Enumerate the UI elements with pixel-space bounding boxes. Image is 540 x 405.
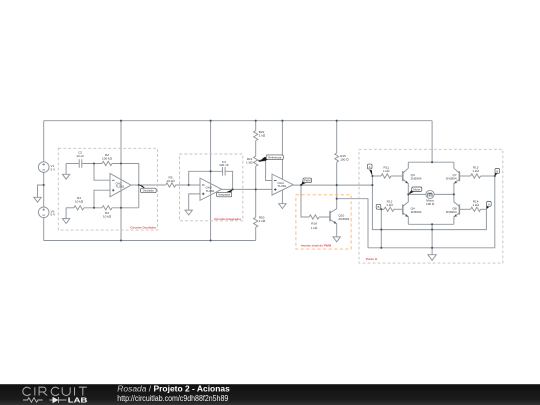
wire R15 to PWM node [336,162,338,198]
junction dots H-bridge [371,175,373,177]
junction dots PWM [300,184,302,186]
motor M1 [426,190,434,198]
resistor R11 [381,174,391,178]
wire bottom rail [44,240,256,242]
svg-text:Integrador: Integrador [218,193,230,197]
wire OA4 Vminus to ground [281,190,283,204]
wire H-bridge feed [431,121,433,163]
svg-text:2N3904: 2N3904 [446,177,457,181]
transistor Q4 [402,204,404,214]
svg-text:1 kΩ: 1 kΩ [311,226,318,230]
svg-text:B: B [378,205,380,209]
wire inverter output [337,199,368,248]
wire R4 left [66,207,74,209]
svg-text:100 Ω: 100 Ω [426,202,435,206]
voltage source V1 [38,162,49,173]
svg-text:1 kΩ: 1 kΩ [472,169,479,173]
resistor R5 [166,183,176,187]
wire motor right [434,193,454,195]
wire OA4 output PWM [293,184,372,186]
flag node B right [495,169,500,177]
svg-text:5 V: 5 V [51,167,57,171]
capacitor C2 [79,159,82,167]
transistor Q7 [458,171,460,181]
resistor R15 vertical [335,153,339,162]
arrow Q3 emitter [405,181,408,184]
flag Referencia [259,155,284,162]
wire bridge top [408,161,454,163]
wire OA3 power vertical [210,121,212,241]
svg-text:TL081: TL081 [278,184,287,188]
op-amp OA4 triangle [272,174,293,195]
arrow Q7 emitter [454,181,457,184]
wire node B net [368,176,495,248]
svg-text:1 kΩ: 1 kΩ [259,134,266,138]
svg-text:100 nF: 100 nF [219,163,229,167]
wire OA2 plus input [94,190,110,208]
svg-text:10 kΩ: 10 kΩ [75,199,84,203]
svg-text:Rosada / Projeto 2 - Acionas: Rosada / Projeto 2 - Acionas [117,385,230,394]
resistor R12 [384,207,394,211]
wire OA2 output to R5 [131,184,166,186]
wire V6 to bottom rail [43,218,45,241]
svg-text:2N3904: 2N3904 [411,210,422,214]
op-amp OA2 triangle [110,173,131,196]
resistor R18 [309,215,319,219]
annotation box Ponte H [359,149,503,263]
svg-text:PWM: PWM [304,179,311,183]
wire C3 to output [225,171,233,189]
ground bridge [428,255,436,261]
wire OA4 Vplus [281,121,283,180]
ground Q10 [333,237,340,242]
flag node A right [486,202,491,210]
ground under C2 [62,164,69,180]
logo wire-resistor-diode glyph [23,397,67,403]
svg-text:5 V: 5 V [51,213,57,217]
transistor Q8 [458,204,460,214]
wire OA3 output to OA4 plus [222,188,272,190]
svg-text:TL081: TL081 [206,189,215,193]
wire motor left [408,193,426,195]
voltage source V6 [38,207,49,218]
wire Q4 base [394,208,403,210]
op-amp OA2 plus minus [112,180,115,191]
svg-text:10 kΩ: 10 kΩ [166,179,175,183]
junction dots oscillator [93,162,95,164]
wire node B branch to R12 [380,209,382,248]
svg-text:http://circuitlab.com/c9dh88f2: http://circuitlab.com/c9dh88f2n5h89 [117,394,228,403]
arrow Q4 emitter [405,214,408,217]
svg-text:1 kΩ: 1 kΩ [386,203,393,207]
svg-text:Ponte H: Ponte H [366,257,377,261]
wire wiper to OA4 minus [266,161,272,181]
wire C2 to R2 [82,163,102,165]
svg-text:A: A [488,202,490,206]
op-amp OA4 plus minus [274,181,277,191]
wire R2 to feedback [112,163,139,165]
resistor R22 vertical [254,131,258,141]
resistor R4 [74,206,84,210]
junction dots on rails [120,120,122,122]
wire R12 left [381,208,384,210]
svg-text:2N3904: 2N3904 [411,177,422,181]
ground OA4 [279,204,286,209]
svg-text:10 kΩ: 10 kΩ [103,215,112,219]
svg-text:Motor: Motor [413,187,420,191]
wire C2 row [66,163,79,165]
svg-text:2N3904: 2N3904 [446,210,457,214]
wire R15 pullup top [336,121,338,153]
junction dot left ground [43,184,45,186]
resistor R3 [102,206,112,210]
resistor R13 [471,174,481,178]
wire Q7 base [459,175,470,177]
svg-text:B: B [496,169,498,173]
op-amp OA3 plus minus [202,185,205,195]
transistor Q10 [329,211,331,222]
resistor R2 [102,161,112,165]
arrow Q8 emitter [454,214,457,217]
svg-text:1 kΩ: 1 kΩ [383,169,390,173]
flag node B left [376,204,381,209]
wire R13 right [481,175,495,177]
wire R18 branch down [301,185,309,217]
svg-text:TL081: TL081 [116,185,125,189]
ground under R4 [62,208,69,224]
wire top power rail [44,120,432,122]
svg-text:Referencia: Referencia [268,155,282,159]
junction dots integrator [188,184,190,186]
wire divider top [255,121,257,131]
wire R3 to feedback [112,207,139,209]
wire OA2 minus input [94,164,110,181]
svg-text:Circuito Oscilador: Circuito Oscilador [130,226,157,230]
annotation box Inverte sinal do PWM [296,195,351,249]
wire node A net [372,176,486,230]
svg-text:1 kΩ: 1 kΩ [472,203,479,207]
wire R18 to Q10 base [319,216,330,218]
svg-text:1 kΩ: 1 kΩ [259,219,266,223]
svg-text:A: A [369,165,371,169]
flag PWM [301,178,312,185]
wire OA3 plus to ground [189,194,200,210]
wire bridge ground [431,224,433,254]
wire R4 to R3 [84,207,102,209]
wire bridge bottom [408,223,454,225]
wire R22 to R21 [255,141,257,157]
resistor R14 [471,207,481,211]
arrow Q10 emitter [334,221,337,224]
svg-text:100 Ω: 100 Ω [340,157,349,161]
wire between V1 and V6 [43,172,45,207]
flag Oscilador [139,185,156,193]
arrow pot R21 wiper [258,160,261,163]
wire OA2 power vertical [120,121,122,241]
wire R20 to bottom rail [255,227,257,240]
flag node A left [367,164,372,176]
wire R14 right [481,208,487,210]
wire R5 to OA3 minus [175,184,200,186]
wire R11 left [372,175,381,177]
ground left column [34,197,41,202]
logo CIRCUIT (drawn as paths) [23,387,87,395]
wire Q3 base [391,175,403,177]
svg-text:1 kΩ: 1 kΩ [246,161,253,165]
svg-text:Inverte sinal do PWM: Inverte sinal do PWM [301,243,332,247]
svg-text:10 uF: 10 uF [76,154,84,158]
wire mid ground stub [38,185,44,197]
wire left column V1 top [43,121,45,162]
capacitor C3 [223,167,226,175]
wire R21 to R20 [255,166,257,217]
ground OA3 plus [185,210,192,215]
transistor Q3 [402,171,404,181]
annotation box Circuito Integrador [180,154,243,221]
svg-text:R18: R18 [311,221,317,225]
resistor R20 vertical [254,217,258,227]
svg-text:Oscilador: Oscilador [143,189,154,193]
svg-text:2N3904: 2N3904 [338,217,349,221]
wire OA2 feedback vertical [138,164,140,208]
flag Motor [408,187,422,194]
annotation box Circuito Oscilador [58,148,157,230]
svg-text:Circuito Integrador: Circuito Integrador [214,217,242,221]
motor M glyph [428,193,432,197]
op-amp OA3 triangle [200,178,222,200]
svg-text:LAB: LAB [68,395,88,404]
wire integrator feedback up [189,171,223,185]
potentiometer R21 [254,156,258,166]
svg-text:100 kΩ: 100 kΩ [102,157,113,161]
flag Integrador [217,189,233,196]
wire Q8 base [459,208,470,210]
